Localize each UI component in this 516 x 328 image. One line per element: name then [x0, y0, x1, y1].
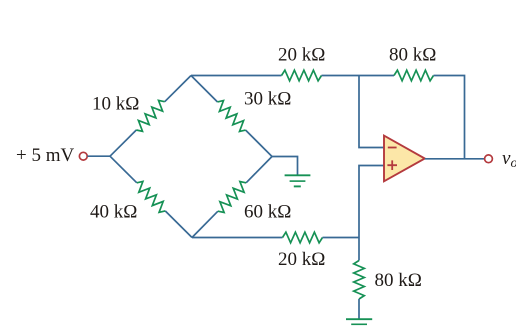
wire junction to inverting input — [359, 76, 384, 148]
resistor 20 kOhm (top) — [282, 70, 322, 81]
wire noninverting input from bottom junction — [359, 166, 384, 238]
svg-text:80 kΩ: 80 kΩ — [389, 45, 436, 66]
svg-text:60 kΩ: 60 kΩ — [244, 202, 291, 223]
wire top rail: node B to 20k — [191, 75, 282, 77]
wire input to node A — [87, 155, 110, 157]
svg-text:+ 5 mV: + 5 mV — [16, 145, 74, 166]
wire 80k to ground — [358, 299, 360, 319]
svg-text:20 kΩ: 20 kΩ — [278, 249, 325, 270]
resistor 10 kOhm zigzag — [136, 100, 164, 131]
output terminal — [485, 155, 493, 163]
resistor 80 kOhm (vertical) — [354, 261, 365, 300]
wire bottom rail: 20k to junction — [323, 237, 360, 239]
ground (bridge) — [285, 175, 311, 186]
resistor 20 kOhm (bottom) — [283, 232, 323, 243]
input terminal — [79, 152, 87, 160]
op-amp plus sign — [387, 160, 397, 170]
op-amp minus sign — [388, 147, 397, 149]
resistor 60 kOhm (node D to node C) — [192, 157, 272, 238]
wire op-amp output — [425, 158, 485, 160]
wire top rail: 20k to 80k — [322, 75, 395, 77]
resistor 40 kOhm zigzag — [137, 181, 165, 212]
svg-text:30 kΩ: 30 kΩ — [244, 89, 291, 110]
wire node C to ground stub — [272, 157, 298, 176]
resistor 40 kOhm (node A to node D) — [110, 156, 192, 237]
resistor 30 kOhm zigzag — [217, 101, 245, 132]
resistor 60 kOhm zigzag — [218, 182, 246, 213]
wire junction down to 80k — [358, 238, 360, 261]
wire bottom rail: node D to 20k — [192, 237, 283, 239]
resistor 80 kOhm (feedback) — [394, 70, 434, 81]
resistor 10 kOhm (node A to node B) — [110, 76, 191, 157]
resistor 30 kOhm (node B to node C) — [191, 76, 272, 157]
ground (bottom) — [346, 319, 372, 328]
wire top rail: 80k to corner and down to output node — [434, 76, 465, 159]
svg-text:40 kΩ: 40 kΩ — [90, 202, 137, 223]
svg-text:vo: vo — [502, 148, 516, 171]
svg-text:80 kΩ: 80 kΩ — [375, 270, 422, 291]
op-amp U1 — [384, 136, 425, 182]
svg-text:20 kΩ: 20 kΩ — [278, 45, 325, 66]
svg-text:10 kΩ: 10 kΩ — [92, 94, 139, 115]
